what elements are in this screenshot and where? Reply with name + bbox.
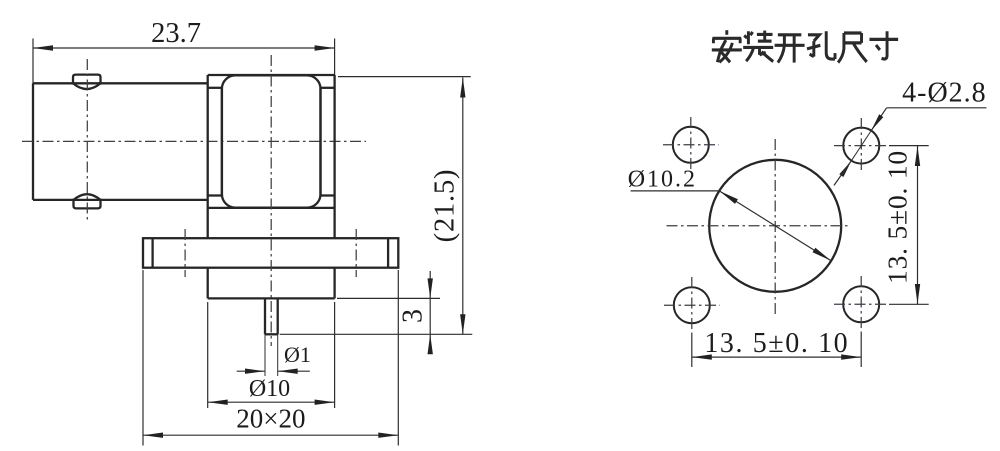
svg-text:3: 3 [398, 309, 429, 323]
crosshair bottom-left hole [664, 304, 720, 306]
rounded front face [222, 75, 321, 207]
big circle vertical centerline [774, 139, 776, 316]
dim 3 line [429, 271, 431, 354]
dim 20×20 line [143, 434, 398, 436]
horizontal centerline [22, 140, 366, 142]
pin edge extension lines [264, 334, 266, 376]
svg-text:Ø10.2: Ø10.2 [628, 167, 697, 193]
leader underline 4-Ø2.8 [887, 107, 987, 109]
square body outer [208, 74, 335, 76]
ext line pin bottom [280, 333, 473, 335]
leader diagonal [871, 108, 886, 131]
lower body [207, 268, 209, 299]
svg-text:20×20: 20×20 [236, 404, 305, 434]
main vertical centerline [270, 55, 272, 346]
center pin [264, 298, 266, 334]
small hole bottom-left [674, 287, 710, 323]
dim 23.7 dimension line [33, 47, 335, 49]
crosshair top-left hole [663, 144, 719, 146]
flange hole centerline right [355, 229, 357, 277]
leader tail [834, 161, 851, 186]
dim 20×20 ext lines [142, 270, 144, 446]
small hole top-left [673, 127, 709, 163]
mounting hole Ø10.2 circle [709, 160, 841, 292]
crosshair bottom-right hole [834, 303, 889, 305]
small hole top-right [843, 128, 879, 164]
crosshair top-right hole [834, 145, 889, 147]
small hole bottom-right [843, 286, 879, 322]
leader underline Ø10.2 [631, 190, 720, 192]
diameter arrow line [720, 191, 831, 261]
svg-text:23.7: 23.7 [151, 18, 201, 49]
bayonet lug bottom [74, 199, 101, 209]
svg-text:Ø10: Ø10 [249, 376, 290, 402]
bayonet lug top [73, 75, 101, 85]
dim Ø10 line [208, 401, 335, 403]
dim (21.5) line [462, 78, 464, 335]
square body inner edges [221, 88, 223, 196]
flange end caps [151, 238, 153, 268]
dim 23.7 extension line right [334, 39, 336, 76]
dim 13.5±0.10 vertical line [917, 146, 919, 305]
chord through hole [851, 131, 871, 161]
dim 13.5±0.10 bottom line [692, 356, 861, 358]
svg-text:(21.5): (21.5) [430, 169, 461, 243]
title 安装开孔尺寸 (hand-drawn strokes) [712, 30, 742, 62]
flange outline [143, 238, 398, 268]
dim Ø10 ext lines [207, 302, 209, 408]
svg-text:Ø1: Ø1 [284, 342, 311, 367]
ext line body top for dim 21.5 [338, 76, 471, 78]
BNC barrel outline [33, 82, 208, 84]
svg-text:13. 5±0. 10: 13. 5±0. 10 [704, 328, 849, 359]
flange hole centerline left [184, 229, 186, 277]
svg-text:13. 5±0. 10: 13. 5±0. 10 [882, 150, 913, 284]
ext line body bottom for dim 3 [337, 297, 440, 299]
svg-text:4-Ø2.8: 4-Ø2.8 [902, 78, 987, 109]
dim Ø1 lines [237, 370, 265, 372]
dim 23.7 extension line left [32, 39, 34, 84]
lug centerline [86, 59, 88, 223]
big circle horizontal centerline [667, 225, 852, 227]
